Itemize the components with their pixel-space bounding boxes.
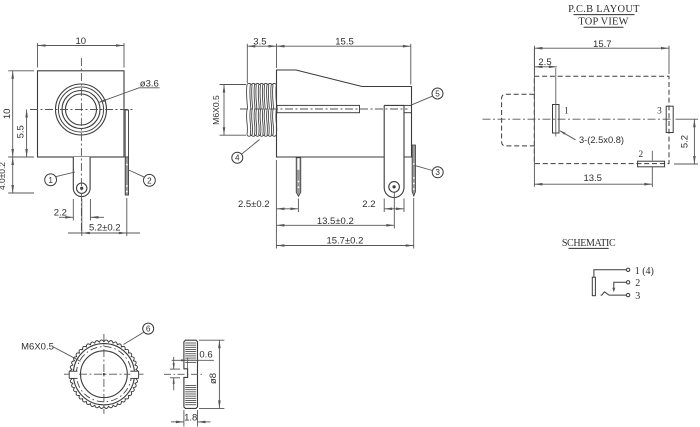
- threaded bushing M6X0.5: [246, 85, 249, 136]
- callout 3: [432, 167, 443, 178]
- nut hole circle: [81, 351, 128, 398]
- svg-text:5.2: 5.2: [680, 135, 691, 148]
- dimension M6X0.5: [220, 84, 247, 86]
- terminal leg front: [73, 157, 90, 197]
- pad 3: [666, 106, 673, 132]
- callout 2: [144, 174, 156, 186]
- front view horizontal centerline: [30, 109, 135, 111]
- callout 1: [45, 174, 57, 186]
- dimension 10 left height: [8, 70, 34, 72]
- svg-text:5.5: 5.5: [16, 125, 27, 138]
- schematic terminal 3 circle: [626, 293, 629, 296]
- nut vertical centerline: [103, 334, 105, 414]
- svg-text:2: 2: [147, 176, 152, 185]
- front view vertical centerline: [80, 58, 82, 233]
- svg-text:3: 3: [435, 168, 440, 177]
- side view body outline: [277, 70, 412, 157]
- svg-text:1 (4): 1 (4): [635, 266, 654, 277]
- svg-text:2.2: 2.2: [362, 199, 375, 210]
- pad 1: [553, 105, 560, 134]
- nut side knurl lines: [185, 342, 196, 344]
- svg-text:1: 1: [564, 107, 569, 117]
- callout 6: [143, 323, 154, 334]
- pcb outline dashed: [534, 76, 669, 163]
- front view bushing outer circle: [56, 84, 107, 135]
- schematic wire terminal 3 with switch bump: [601, 292, 627, 295]
- nut side centerline: [164, 373, 205, 375]
- dimension 13.5 side: [393, 193, 395, 229]
- front view bushing chamfer circle: [58, 87, 103, 132]
- schematic tip contact: [592, 277, 595, 296]
- dimension ø8: [199, 339, 224, 341]
- nut knurled outer edge: [70, 340, 139, 409]
- svg-text:TOP VIEW: TOP VIEW: [578, 17, 628, 28]
- svg-text:4.0±0.2: 4.0±0.2: [0, 162, 7, 190]
- schematic wire to terminal 1: [594, 270, 626, 277]
- side tab terminal 2: [125, 110, 128, 157]
- svg-text:SCHEMATIC: SCHEMATIC: [562, 238, 616, 249]
- svg-text:3.5: 3.5: [253, 37, 266, 48]
- svg-text:13.5: 13.5: [583, 173, 602, 184]
- dimension 15.7 side: [413, 198, 415, 249]
- nut face circle: [73, 344, 134, 405]
- front terminal pin: [296, 158, 301, 197]
- front view ring circle: [62, 91, 100, 129]
- svg-text:3-(2.5x0.8): 3-(2.5x0.8): [579, 135, 624, 145]
- schematic terminal 2 circle: [626, 281, 629, 284]
- dimension 2.5 side: [275, 160, 277, 249]
- nut horizontal centerline: [64, 373, 144, 375]
- dimension 1.8: [183, 410, 185, 427]
- side view centerline: [240, 108, 408, 110]
- terminal 3 pin: [412, 145, 415, 196]
- callout 5: [432, 88, 443, 99]
- dimension 13.5 pcb: [651, 167, 653, 187]
- svg-text:P.C.B LAYOUT: P.C.B LAYOUT: [568, 4, 640, 15]
- svg-text:2.5±0.2: 2.5±0.2: [238, 199, 270, 210]
- pcb centerline: [483, 118, 674, 120]
- nut center dot: [103, 373, 105, 375]
- svg-text:13.5±0.2: 13.5±0.2: [317, 216, 354, 227]
- terminal 5 tab: [404, 105, 412, 112]
- svg-text:2.5: 2.5: [538, 57, 551, 68]
- svg-text:5.2±0.2: 5.2±0.2: [89, 222, 121, 233]
- svg-text:10: 10: [2, 109, 13, 120]
- svg-text:M6X0.5: M6X0.5: [21, 341, 54, 352]
- pad 2: [638, 161, 665, 167]
- dimension 5.2 pcb: [676, 118, 699, 120]
- svg-text:1: 1: [48, 176, 53, 185]
- terminal leg hole center dot: [80, 187, 83, 190]
- dimension 10 top width: [37, 43, 39, 68]
- dimension 5.5: [26, 110, 28, 158]
- svg-text:15.7±0.2: 15.7±0.2: [326, 236, 363, 247]
- switch leg hole dot: [393, 185, 396, 188]
- callout 4: [232, 152, 243, 163]
- svg-text:15.5: 15.5: [335, 37, 354, 48]
- svg-text:10: 10: [76, 36, 87, 47]
- svg-text:2: 2: [638, 150, 643, 160]
- schematic terminal 1 circle: [626, 268, 629, 271]
- nut right slot: [130, 372, 138, 379]
- svg-text:2: 2: [635, 278, 640, 289]
- nut left slot: [69, 372, 77, 379]
- svg-text:4: 4: [235, 154, 240, 163]
- svg-text:3: 3: [657, 107, 662, 117]
- dimension 15.5: [410, 44, 412, 85]
- dimension 2.5 pcb: [533, 48, 535, 187]
- svg-text:6: 6: [146, 325, 151, 334]
- svg-text:3: 3: [635, 291, 640, 302]
- dimension 15.7 pcb: [533, 46, 535, 74]
- svg-text:2.2: 2.2: [54, 207, 67, 218]
- dimension 4.0 leg length: [8, 192, 34, 194]
- schematic wire terminal 2: [614, 282, 627, 288]
- nut side outline: [184, 340, 198, 408]
- svg-text:0.6: 0.6: [199, 350, 212, 361]
- svg-text:5: 5: [435, 89, 440, 98]
- center contact pin bar: [277, 105, 360, 112]
- svg-text:M6X0.5: M6X0.5: [211, 95, 221, 125]
- switch leg with hole: [384, 105, 404, 197]
- svg-text:ø8: ø8: [208, 373, 219, 384]
- dimension 2.2 front: [72, 199, 74, 221]
- front view body outline: [38, 71, 125, 157]
- nut thread pitch circle dashed: [76, 347, 131, 402]
- svg-text:1.8: 1.8: [184, 413, 197, 424]
- svg-text:15.7: 15.7: [593, 39, 612, 50]
- pcb bushing outline dashed: [502, 94, 535, 146]
- dimension 2.2 side: [383, 199, 385, 213]
- dimension 5.2 front: [81, 199, 83, 236]
- dimension 3.5: [246, 44, 248, 83]
- terminal leg hole: [77, 183, 87, 193]
- front view jack hole circle ø3.6: [66, 94, 97, 125]
- switch leg hole: [389, 182, 400, 193]
